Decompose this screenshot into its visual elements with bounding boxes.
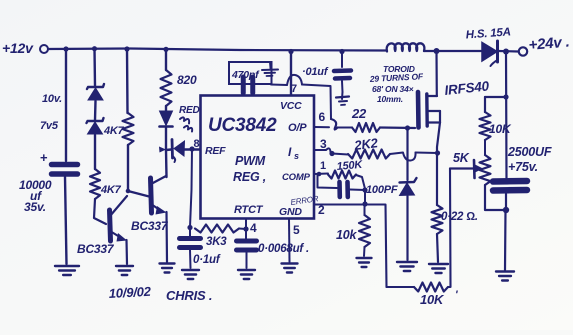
label pin4 — [250, 221, 257, 235]
wire — [406, 196, 408, 260]
wire VCC — [290, 52, 292, 96]
label O/P — [288, 122, 307, 134]
label GND — [279, 206, 302, 218]
capacitor C2 bars — [243, 77, 253, 93]
wire pin4 — [245, 219, 247, 229]
junction — [503, 49, 509, 55]
svg-text:COMP: COMP — [282, 172, 311, 183]
svg-text:100PF: 100PF — [366, 184, 398, 196]
svg-text:H.S. 15A: H.S. 15A — [465, 26, 511, 41]
label pin6 — [319, 110, 326, 124]
ground — [496, 272, 514, 281]
svg-text:RED: RED — [179, 105, 200, 116]
resistor R9 10k — [336, 215, 370, 247]
junction — [63, 46, 68, 51]
ground — [182, 270, 199, 279]
svg-text:35v.: 35v. — [24, 200, 46, 214]
capacitor C5 100pf — [340, 182, 398, 197]
resistor R7 0.22 — [432, 205, 478, 234]
wire — [165, 106, 167, 111]
wire — [485, 96, 506, 98]
label 10000uf 35v — [19, 178, 52, 214]
wire 470pf to pin6 — [271, 75, 331, 119]
label 10K — [420, 289, 458, 307]
svg-text:UC3842: UC3842 — [208, 115, 277, 136]
zener D6 — [400, 178, 417, 196]
ground — [336, 92, 349, 105]
svg-text:10K: 10K — [420, 292, 445, 307]
junction — [163, 47, 168, 52]
potentiometer VR1 5k — [450, 151, 491, 185]
wire drain — [435, 51, 437, 96]
wire — [364, 190, 366, 204]
svg-text:3K3: 3K3 — [206, 236, 227, 248]
svg-text:BC337: BC337 — [131, 219, 169, 233]
wire — [448, 169, 451, 288]
transistor Q3 IRF540 — [418, 92, 440, 128]
svg-text:8: 8 — [194, 138, 200, 150]
label BC337 — [131, 219, 169, 233]
svg-text:820: 820 — [177, 73, 197, 87]
resistor R10 10K — [414, 283, 448, 292]
svg-text:REF: REF — [205, 145, 226, 157]
wire source — [437, 123, 440, 206]
wire gate — [380, 126, 415, 129]
svg-text:I: I — [288, 145, 292, 159]
label BC337 — [77, 242, 115, 256]
ground — [429, 264, 448, 273]
ground — [282, 264, 298, 273]
svg-text:CHRIS .: CHRIS . — [166, 288, 212, 303]
wire — [437, 234, 438, 262]
svg-text:2K2: 2K2 — [353, 135, 380, 153]
label IRF540 — [444, 78, 491, 98]
wire — [126, 49, 129, 113]
svg-text:1: 1 — [320, 160, 326, 172]
svg-text:s: s — [294, 151, 299, 161]
label PWM — [235, 154, 266, 168]
LED D3 RED — [160, 105, 200, 132]
svg-text:0·0068uf .: 0·0068uf . — [258, 243, 309, 255]
capacitor C6 0.1uf — [180, 228, 221, 269]
resistor R5 10K — [480, 112, 512, 140]
ground — [357, 258, 372, 267]
ground — [55, 266, 79, 275]
wire +12v rail — [48, 49, 387, 51]
svg-text:PWM: PWM — [235, 154, 266, 168]
svg-text:68' ON 34×: 68' ON 34× — [372, 84, 414, 94]
svg-text:+: + — [40, 150, 48, 165]
svg-text:2500UF: 2500UF — [507, 145, 552, 159]
svg-text:10v.: 10v. — [42, 93, 62, 105]
wire pin1 — [315, 173, 329, 176]
capacitor C3 01uf — [302, 52, 351, 92]
label REG — [233, 170, 266, 184]
capacitor C2 470pf box — [229, 62, 278, 84]
label 10v — [42, 93, 62, 105]
svg-text:0·22 Ω.: 0·22 Ω. — [441, 211, 478, 223]
label pin1 — [320, 160, 326, 172]
wire — [93, 49, 96, 86]
svg-text:4K7: 4K7 — [103, 125, 125, 137]
wire — [190, 149, 192, 227]
wire — [65, 177, 67, 264]
wire — [165, 150, 168, 177]
wire hop — [390, 153, 438, 161]
junction — [288, 49, 293, 54]
ground — [397, 262, 417, 271]
junction — [503, 94, 508, 99]
junction — [92, 46, 97, 51]
junction — [362, 201, 367, 206]
svg-text:O/P: O/P — [288, 122, 307, 134]
wire — [406, 128, 408, 180]
label UC3842 — [208, 115, 277, 136]
resistor R1 4K7 — [103, 113, 134, 145]
label VCC — [280, 100, 302, 112]
junction — [124, 46, 129, 51]
svg-text:RTCT: RTCT — [234, 204, 264, 216]
transistor Q1 BC337 — [110, 196, 128, 264]
junction — [187, 225, 192, 230]
wire — [127, 145, 129, 191]
svg-text:10k: 10k — [336, 228, 358, 242]
resistor R8 150K — [328, 159, 364, 179]
junction — [434, 48, 440, 54]
svg-text:22: 22 — [351, 106, 367, 121]
label RTCT — [234, 204, 264, 216]
junction — [339, 49, 344, 54]
label 7v5 — [40, 120, 59, 132]
label date — [108, 284, 212, 303]
svg-text:10/9/02: 10/9/02 — [108, 284, 152, 301]
junction — [126, 189, 131, 194]
label REF — [205, 145, 226, 157]
junction node REF — [189, 138, 199, 152]
wire — [505, 194, 506, 270]
resistor R6 2K2 — [348, 135, 390, 158]
wire pin3 — [315, 148, 331, 152]
ground — [238, 270, 255, 279]
svg-text:4K7: 4K7 — [100, 184, 122, 196]
wire — [484, 140, 486, 155]
label toroid — [369, 64, 425, 104]
node +24v terminal — [519, 33, 570, 55]
resistor R3 820 — [161, 70, 197, 106]
resistor R2 4K7 — [90, 169, 122, 199]
junction — [243, 226, 248, 231]
svg-text:+12v: +12v — [2, 40, 34, 56]
ground — [116, 266, 133, 275]
svg-text:·01uf: ·01uf — [302, 66, 329, 78]
label pin3 — [320, 137, 327, 151]
label COMP — [282, 172, 311, 183]
junction — [329, 151, 334, 156]
svg-text:+75v.: +75v. — [508, 160, 538, 174]
node +12v terminal — [2, 40, 48, 56]
svg-text:GND: GND — [279, 206, 302, 218]
junction — [405, 125, 410, 130]
wire — [387, 286, 415, 288]
wire — [484, 97, 486, 112]
wire — [499, 50, 518, 53]
wire — [94, 135, 96, 169]
wire pin2 — [315, 204, 366, 206]
svg-text:REG ,: REG , — [233, 170, 266, 184]
wire 100pf branch — [318, 174, 338, 188]
inductor L1 toroid — [387, 43, 481, 51]
diode D5 HS 15A — [465, 26, 511, 66]
capacitor C4 2500uF — [493, 145, 552, 191]
capacitor C1 10000uF — [40, 150, 78, 174]
wire — [94, 199, 106, 224]
wire — [505, 52, 508, 179]
junction — [362, 187, 367, 192]
svg-text:4: 4 — [250, 221, 257, 235]
svg-text:7: 7 — [291, 83, 297, 95]
IC U1 UC3842 outline — [201, 96, 315, 219]
wire pin6 — [315, 119, 353, 130]
label pin2 — [318, 203, 325, 217]
wire — [363, 247, 366, 256]
capacitor C7 0.0068uf — [237, 229, 310, 268]
ground — [160, 264, 175, 273]
wire — [165, 128, 167, 150]
label ERROR — [290, 194, 319, 207]
label pin7 — [291, 83, 297, 95]
wire — [485, 185, 503, 210]
zener D2 7v5 — [87, 118, 104, 134]
svg-text:10K: 10K — [489, 122, 512, 136]
svg-text:150K: 150K — [336, 159, 364, 173]
svg-text:6: 6 — [319, 110, 326, 124]
svg-text:10mm.: 10mm. — [377, 94, 403, 104]
wire — [185, 148, 201, 150]
resistor R11 3K3 — [195, 225, 246, 249]
junction — [435, 150, 440, 155]
wire — [65, 49, 67, 161]
svg-text:0·1uf: 0·1uf — [193, 254, 221, 266]
wire — [165, 49, 167, 70]
svg-text:VCC: VCC — [280, 100, 302, 112]
svg-text:5K: 5K — [453, 151, 470, 165]
resistor R4 22 — [351, 106, 380, 132]
label pin5 — [293, 223, 300, 237]
svg-text:7v5: 7v5 — [40, 120, 59, 132]
wire — [94, 101, 97, 120]
zener D1 10v — [87, 84, 104, 100]
diode D4 — [159, 140, 185, 163]
wire — [332, 154, 348, 155]
wire pin5 — [288, 219, 291, 262]
label Is — [288, 145, 299, 161]
junction — [317, 172, 322, 177]
wire — [365, 205, 387, 288]
svg-text:29 TURNS OF: 29 TURNS OF — [369, 71, 425, 84]
wire — [166, 148, 171, 151]
wire — [356, 175, 365, 188]
svg-text:5: 5 — [293, 223, 300, 237]
junction — [503, 207, 509, 213]
svg-text:BC337: BC337 — [77, 242, 115, 256]
svg-text:': ' — [455, 289, 458, 301]
transistor Q2 BC337 — [128, 176, 167, 262]
svg-text:+24v .: +24v . — [528, 33, 570, 54]
svg-text:IRFS40: IRFS40 — [444, 78, 491, 98]
wire — [364, 204, 366, 215]
